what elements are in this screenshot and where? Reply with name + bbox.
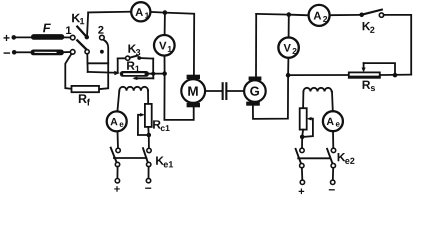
wire <box>88 11 131 14</box>
node junction Rs tap <box>393 73 398 78</box>
rheostat Rc2 <box>300 108 313 137</box>
motor M <box>181 75 205 108</box>
node junction V2 top <box>287 12 292 17</box>
fuse F <box>31 24 64 40</box>
wire <box>330 14 360 16</box>
node terminal plus right <box>299 168 305 194</box>
node junction top wire <box>163 10 168 15</box>
wire <box>253 75 288 119</box>
rheostat Rs <box>349 63 395 91</box>
wire <box>301 137 303 148</box>
wire <box>65 54 71 89</box>
ammeter A2 <box>309 5 330 26</box>
wire <box>149 73 165 75</box>
wire <box>291 14 309 17</box>
node terminal minus left <box>145 167 151 189</box>
wire <box>99 40 108 89</box>
wire <box>147 91 149 104</box>
node terminal plus left <box>114 167 120 192</box>
wire <box>164 56 166 74</box>
wire <box>301 130 304 137</box>
wire <box>151 12 195 75</box>
wire <box>332 131 334 148</box>
wire <box>255 14 257 77</box>
wire <box>64 36 70 38</box>
wire <box>64 51 70 53</box>
wire <box>88 62 109 64</box>
wire <box>380 74 411 76</box>
switch K3 <box>118 45 154 74</box>
wire <box>384 15 412 75</box>
ammeter Ae right <box>323 111 343 131</box>
ammeter A1 <box>131 2 150 21</box>
voltmeter V2 <box>278 15 298 76</box>
node junction R1 out <box>151 72 155 76</box>
wire <box>117 91 119 112</box>
switch K1 <box>66 14 104 55</box>
wire <box>87 12 88 37</box>
wire <box>147 127 149 135</box>
wire <box>164 13 166 35</box>
node minus supply terminal <box>4 50 17 55</box>
generator G <box>244 77 266 106</box>
rheostat Rc1 <box>138 104 170 135</box>
switch Ke2 <box>296 148 355 168</box>
node terminal minus right <box>329 168 335 191</box>
switch K2 <box>359 10 383 33</box>
node junction Rc2 bottom <box>300 135 305 140</box>
wire <box>302 91 304 108</box>
node junction V1 bottom <box>162 71 167 76</box>
switch Ke1 <box>111 148 173 168</box>
wire <box>88 71 116 74</box>
ammeter Ae left <box>107 111 127 131</box>
resistor R1 <box>114 62 153 81</box>
wire <box>290 74 349 76</box>
wire <box>117 132 120 149</box>
fuse F2 <box>31 50 64 56</box>
wire <box>331 91 334 111</box>
node junction Rc1 bottom <box>147 133 152 138</box>
shaft coupling <box>205 82 244 100</box>
voltmeter V1 <box>154 35 175 56</box>
wire <box>16 36 31 38</box>
inductor G field winding <box>303 88 331 92</box>
wire <box>148 135 150 148</box>
inductor M field winding <box>119 87 148 91</box>
wire <box>16 51 30 53</box>
node plus supply terminal <box>4 35 17 41</box>
node junction V2 bottom <box>286 73 291 78</box>
resistor Rf <box>72 86 100 106</box>
wire <box>256 13 289 16</box>
wire <box>86 54 88 72</box>
wire <box>164 76 193 120</box>
